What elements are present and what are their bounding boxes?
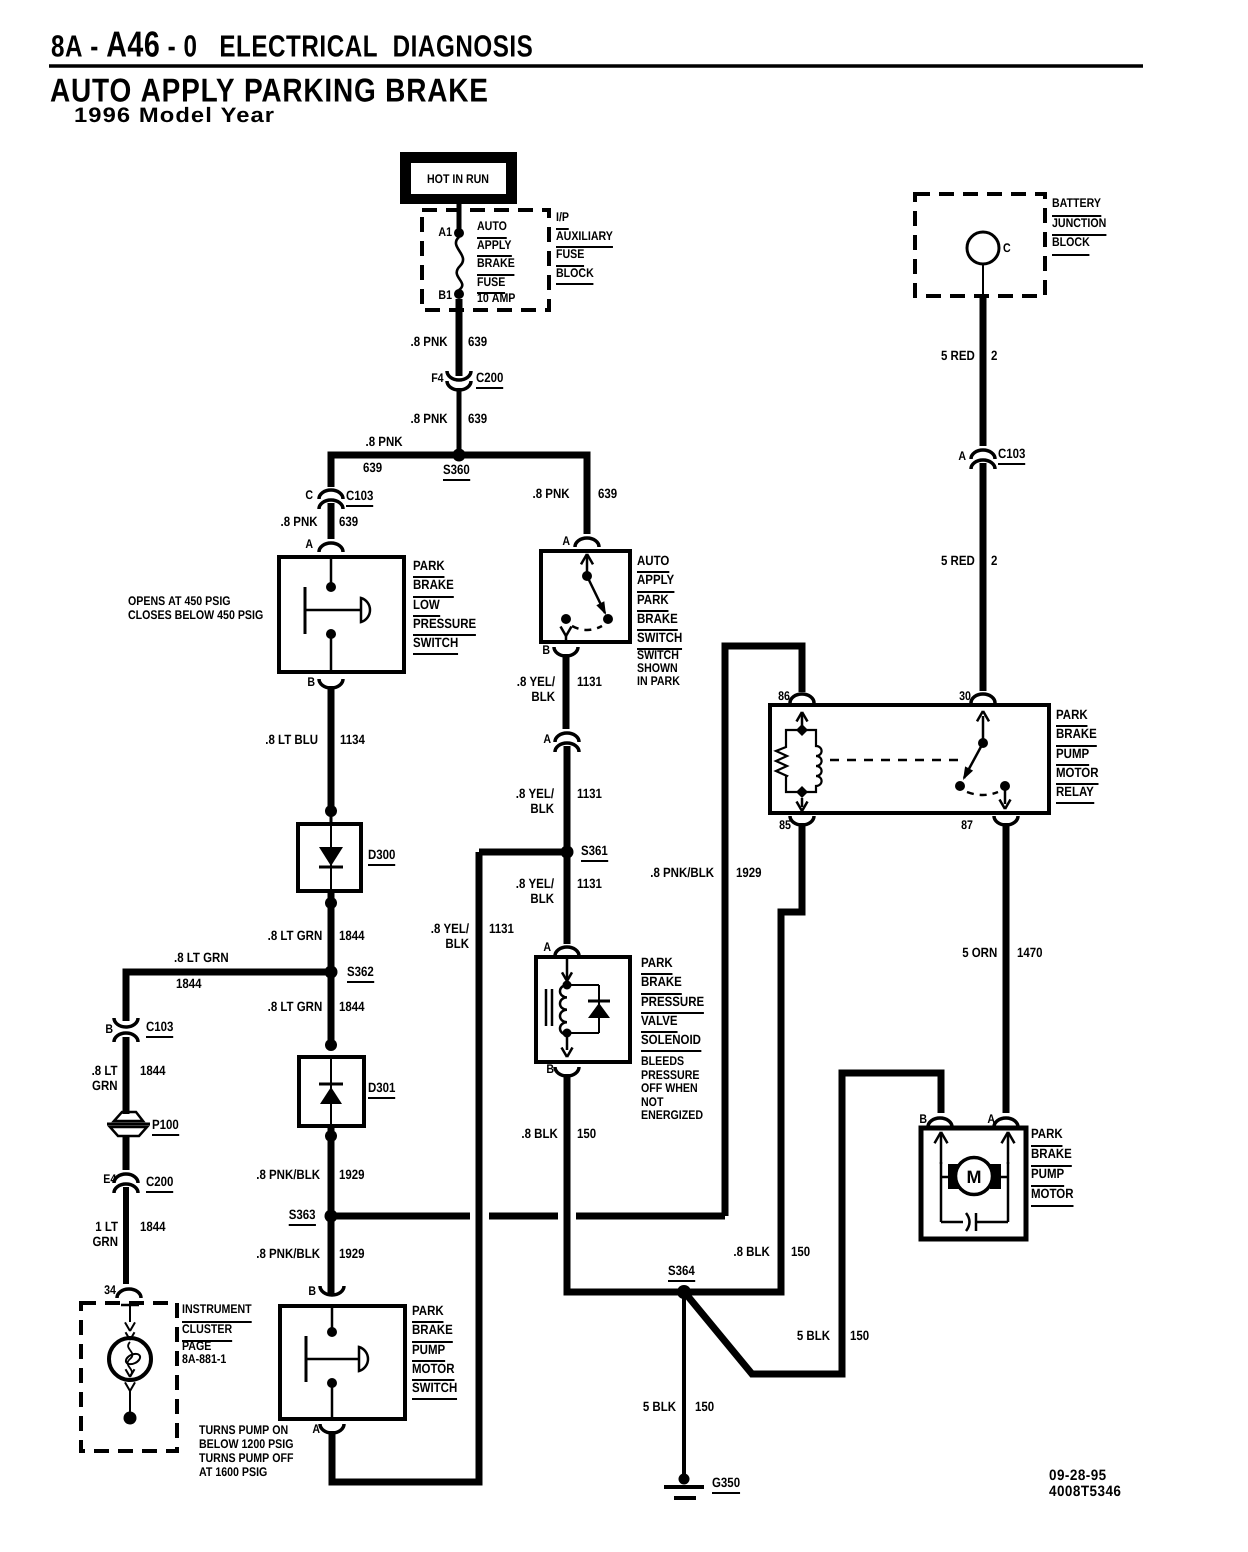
splice name S360: [443, 463, 470, 481]
fuse pin A1 terminal: [454, 228, 464, 238]
connector name C103: [146, 1020, 173, 1038]
wire label .8 LT GRN: [267, 929, 322, 944]
wire .8 LT GRN 1844 S362 to D301: [328, 972, 335, 1041]
wire label 5 ORN: [962, 946, 997, 961]
wire 5 RED 2 battery to C103: [980, 296, 987, 446]
note BELOW 1200 PSIG: [199, 1438, 293, 1452]
park brake pump motor box: [921, 1128, 1026, 1239]
wire 5 RED 2 C103 to relay 30: [980, 463, 987, 691]
pin label 34: [104, 1284, 116, 1298]
component label PARK BRAKE LOW PRESSURE SWITCH: [413, 556, 476, 652]
pin label A1: [438, 226, 452, 240]
note SWITCH SHOWN IN PARK: [637, 649, 680, 687]
wire P100 to C200: [123, 1136, 130, 1170]
pin label B: [308, 1285, 316, 1299]
wire .8 PNK/BLK 1929 S363 to relay segment 2: [489, 1213, 558, 1220]
wire label .8 LT BLU: [265, 733, 318, 748]
wire circuit 1844: [176, 977, 202, 992]
pin A terminal of auto apply switch: [575, 538, 599, 547]
auto switch pivot contact: [582, 571, 592, 581]
connector C103 halves (pin C): [319, 490, 343, 499]
wire from HOT IN RUN to fuse pin A1: [457, 204, 462, 230]
wire label .8 LT GRN: [92, 1064, 118, 1093]
solenoid pin A arrow: [566, 959, 569, 980]
connector name C200: [476, 371, 503, 389]
I/P auxiliary fuse block (dashed outline): [422, 210, 549, 310]
wire label 5 RED: [941, 554, 975, 569]
wire circuit 1844: [140, 1064, 166, 1079]
pin B terminal of pressure switch: [319, 679, 343, 688]
pin label B: [919, 1113, 927, 1127]
pin label 85: [779, 819, 791, 833]
pin A terminal of pump motor switch: [320, 1424, 344, 1433]
wire S362 branch to instrument cluster: [126, 972, 331, 1021]
park brake pressure valve solenoid box: [536, 957, 630, 1062]
note AT 1600 PSIG: [199, 1466, 267, 1480]
cluster lamp terminal: [124, 1412, 137, 1425]
wire .8 PNK 639 C103 to switch pin A: [328, 503, 335, 539]
relay coil resistor branch: [776, 730, 802, 792]
pin A terminal of solenoid: [555, 947, 579, 956]
pin label A: [543, 733, 551, 747]
pin label A: [312, 1423, 320, 1437]
pin B terminal of solenoid: [555, 1067, 579, 1076]
pin label B: [542, 644, 550, 658]
pin label 87: [961, 819, 973, 833]
wire S360 left branch to pressure switch column: [331, 455, 459, 487]
solenoid coil: [560, 985, 567, 1035]
diode D301 box: [299, 1057, 364, 1126]
wire label 5 BLK (motor): [797, 1329, 830, 1344]
auto apply brake fuse element: [456, 237, 463, 290]
component label BATTERY JUNCTION BLOCK: [1052, 194, 1106, 253]
subtitle 1996 Model Year: [74, 103, 275, 128]
wire circuit 150 (85 wire): [791, 1245, 810, 1260]
diode name D301: [368, 1081, 395, 1099]
pin label C: [305, 489, 313, 503]
connector C200 halves (pin E4): [114, 1174, 138, 1183]
wire circuit 1131 (riser): [489, 922, 514, 937]
wire .8 PNK 639 fuse to C200: [456, 299, 463, 376]
relay coil winding branch: [802, 730, 822, 792]
cluster lead arrow: [125, 1322, 130, 1331]
wire S360 right branch to auto apply switch: [459, 455, 587, 534]
ground G350: [679, 1474, 690, 1485]
component label PARK BRAKE PUMP MOTOR: [1031, 1124, 1074, 1204]
wire 1 LT GRN 1844 C200 to cluster: [123, 1187, 129, 1284]
wire label .8 PNK: [411, 335, 448, 350]
wire label .8 PNK/BLK (86 wire): [650, 866, 714, 881]
connector C103 halves (pin A): [971, 450, 995, 459]
pin A terminal of pump motor: [994, 1118, 1018, 1127]
wire label 1 LT GRN: [93, 1220, 119, 1249]
wire .8 BLK 150 solenoid to S364: [567, 1074, 684, 1292]
pump motor pin B arrow: [940, 1134, 943, 1164]
pin label B1: [438, 289, 452, 303]
pump motor suppression capacitor: [941, 1221, 963, 1224]
node above diode D300: [325, 805, 337, 817]
auto switch contact right: [603, 614, 613, 624]
pressure switch plunger: [304, 587, 307, 634]
wire .8 BLK 150 relay 85 to S364: [686, 823, 802, 1292]
relay switch dashed throw arc: [967, 792, 998, 795]
pressure switch contact A: [326, 582, 336, 592]
wire circuit 1470: [1017, 946, 1043, 961]
header rule line: [49, 64, 1143, 68]
pump switch pin B lead: [331, 1308, 334, 1328]
splice S364: [677, 1285, 691, 1299]
cluster lamp lower lead: [129, 1391, 131, 1412]
wire label .8 PNK: [281, 515, 318, 530]
pin 85 terminal of relay: [790, 816, 814, 825]
HOT IN RUN feed box: [400, 152, 517, 204]
relay pin 30 arrow: [982, 716, 985, 740]
wire circuit 1929 (86 wire): [736, 866, 762, 881]
pressure switch contact B: [326, 629, 336, 639]
pin label E4: [103, 1173, 116, 1187]
pump motor brush right: [990, 1164, 1001, 1189]
brake warning indicator lamp: [109, 1338, 151, 1380]
pressure switch pin B lead: [330, 634, 333, 670]
pin label A: [543, 941, 551, 955]
wire circuit 2: [991, 349, 997, 364]
component label PARK BRAKE PUMP MOTOR RELAY: [1056, 705, 1099, 801]
wire label .8 PNK: [533, 487, 570, 502]
park brake pump motor switch box: [280, 1306, 405, 1419]
wire label .8 LT GRN: [174, 951, 229, 966]
wire circuit 639: [363, 461, 382, 476]
pin label B: [105, 1023, 113, 1037]
relay coil bottom node: [796, 786, 808, 798]
wire label 5 BLK: [643, 1400, 676, 1415]
note TURNS PUMP ON: [199, 1424, 288, 1438]
relay coil pin 85 arrow: [801, 798, 804, 807]
pressure switch pin A lead: [330, 559, 333, 583]
inline connector halves (pin A): [555, 733, 579, 742]
pin label A: [305, 538, 313, 552]
wire label .8 BLK: [522, 1127, 558, 1142]
splice S360: [453, 449, 466, 462]
relay coil pin 86 arrow: [801, 714, 804, 728]
wire 5 BLK 150 pump motor B to S364: [686, 1073, 941, 1374]
pin label F4: [432, 372, 444, 386]
park brake low pressure switch box: [279, 557, 404, 672]
node below diode D300: [325, 897, 337, 909]
pump switch contact B: [327, 1327, 337, 1337]
pump motor brush left: [948, 1164, 959, 1189]
wire circuit 1844: [140, 1220, 166, 1235]
pin label A: [958, 450, 966, 464]
wire label .8 YEL/BLK (riser): [431, 922, 469, 951]
connector name C103: [998, 447, 1025, 465]
component label I/P AUXILIARY FUSE BLOCK: [556, 208, 613, 282]
pin 34 terminal of instrument cluster: [117, 1289, 141, 1298]
wire circuit 1131: [577, 877, 602, 892]
auto switch contact left: [561, 614, 571, 624]
solenoid valve plates: [545, 989, 548, 1026]
splice name S361: [581, 844, 608, 862]
wire circuit 150: [695, 1400, 714, 1415]
wire circuit 1131: [577, 675, 602, 690]
splice name S363: [289, 1208, 316, 1226]
connector name C200: [146, 1175, 173, 1193]
wire .8 PNK/BLK 1929 D301 to S363: [328, 1126, 335, 1295]
pin label 30: [959, 690, 971, 704]
wire 5 BLK 150 S364 to G350: [682, 1292, 686, 1477]
pin label 86: [778, 690, 790, 704]
battery junction stud lead: [982, 264, 984, 296]
note 8A-881-1: [182, 1353, 226, 1367]
wire .8 YEL/BLK 1131 switch B to connector: [563, 654, 570, 729]
wire circuit 639: [598, 487, 617, 502]
relay switch pivot: [978, 738, 988, 748]
pin label B: [307, 676, 315, 690]
note BLEEDS PRESSURE OFF WHEN NOT ENERGIZED: [641, 1055, 703, 1123]
solenoid coil top node: [563, 981, 572, 990]
wire .8 LT BLU 1134: [328, 686, 335, 808]
wire .8 LT GRN 1844 D300 to S362: [328, 891, 335, 969]
title AUTO APPLY PARKING BRAKE: [50, 72, 489, 110]
wire 5 ORN 1470 relay 87 to pump motor: [1003, 823, 1010, 1113]
relay switch contact left: [955, 781, 965, 791]
node below diode D301: [325, 1130, 337, 1142]
wire circuit 1134: [340, 733, 365, 748]
wire S361 branch to pump switch riser: [479, 849, 567, 856]
note OPENS AT 450 PSIG: [128, 595, 231, 609]
wire .8 PNK/BLK 1929 S363 to relay segment 1: [331, 1213, 470, 1220]
wire circuit 1929: [339, 1168, 365, 1183]
label HOT IN RUN: [427, 173, 489, 187]
relay switch blade: [964, 743, 983, 778]
grommet name P100: [152, 1118, 179, 1136]
wire label .8 LT GRN: [267, 1000, 322, 1015]
component label PARK BRAKE PRESSURE VALVE SOLENOID: [641, 953, 704, 1049]
park brake pump motor relay box: [770, 705, 1049, 813]
diode name D300: [368, 848, 395, 866]
wire label .8 PNK/BLK: [256, 1247, 320, 1262]
component label AUTO APPLY PARK BRAKE SWITCH: [637, 551, 682, 647]
wire label .8 PNK: [366, 435, 403, 450]
wire label .8 PNK: [411, 412, 448, 427]
wire label .8 YEL/BLK: [516, 877, 554, 906]
wire circuit 1131: [577, 787, 602, 802]
wire .8 YEL/BLK 1131 connector to S361: [564, 746, 571, 848]
battery junction block (dashed outline): [915, 194, 1045, 296]
auto apply park brake switch box: [541, 551, 630, 642]
wire circuit 639: [468, 412, 487, 427]
wire circuit 639: [468, 335, 487, 350]
diode D300 box: [298, 824, 361, 891]
relay switch contact right: [1000, 781, 1010, 791]
plate date code: [1049, 1468, 1121, 1500]
connector C200 halves (F4): [447, 371, 471, 380]
pin label C: [1003, 242, 1011, 256]
ground name G350: [712, 1476, 740, 1494]
auto switch dashed throw arc: [572, 626, 602, 630]
pin label B: [546, 1063, 554, 1077]
wire label .8 YEL/BLK: [517, 675, 555, 704]
pin B terminal of auto apply switch: [554, 647, 578, 656]
pin 87 terminal of relay: [994, 816, 1018, 825]
relay coil top node: [796, 724, 808, 736]
pump switch contact A: [327, 1378, 337, 1388]
pump motor armature M: [956, 1158, 993, 1195]
pump switch pin A lead: [331, 1383, 334, 1417]
pin B terminal of pump motor: [928, 1118, 952, 1127]
relay pin 87 arrow: [1004, 790, 1007, 804]
wire circuit 1844: [339, 929, 365, 944]
pump motor pin A arrow: [1007, 1134, 1010, 1164]
note TURNS PUMP OFF: [199, 1452, 293, 1466]
pump switch plunger: [305, 1336, 308, 1382]
splice S363: [325, 1210, 338, 1223]
component label PARK BRAKE PUMP MOTOR SWITCH: [412, 1301, 457, 1397]
wire label 5 RED: [941, 349, 975, 364]
grommet P100: [114, 1112, 143, 1121]
wire circuit 2: [991, 554, 997, 569]
solenoid suppression diode: [567, 984, 599, 986]
relay actuation dashed link: [830, 759, 958, 761]
pin A terminal of pressure switch: [319, 543, 343, 552]
connector C103 halves (pin B): [114, 1018, 138, 1027]
pin label A: [987, 1113, 995, 1127]
wire label .8 PNK/BLK: [256, 1168, 320, 1183]
fuse pin B1 terminal: [454, 289, 464, 299]
wire pump switch A to yel/blk riser: [332, 852, 479, 1482]
wire circuit 150 (motor): [850, 1329, 869, 1344]
diode D301: [330, 1059, 332, 1124]
battery junction stud C: [967, 232, 999, 264]
splice S361: [561, 846, 574, 859]
diode D300: [330, 826, 332, 889]
note PAGE: [182, 1340, 211, 1354]
pump motor internal leads: [940, 1162, 943, 1222]
splice S362: [325, 966, 338, 979]
wire circuit 639: [339, 515, 358, 530]
cluster pin 34 lead: [121, 1304, 139, 1307]
note CLOSES BELOW 450 PSIG: [128, 609, 263, 623]
solenoid coil bottom node: [563, 1029, 572, 1038]
pin 86 terminal of relay: [790, 694, 814, 703]
wire circuit 150: [577, 1127, 596, 1142]
fuse name AUTO APPLY BRAKE FUSE 10 AMP: [477, 217, 515, 291]
svg-text:M: M: [967, 1167, 982, 1187]
splice name S362: [347, 965, 374, 983]
pin B terminal of pump motor switch: [320, 1286, 344, 1295]
wire label .8 YEL/BLK: [516, 787, 554, 816]
auto switch blade: [587, 576, 605, 613]
instrument cluster box (dashed outline): [81, 1303, 177, 1451]
component label INSTRUMENT CLUSTER: [182, 1300, 252, 1339]
cluster lamp lower arrow: [125, 1382, 130, 1391]
wire label .8 BLK (85 wire): [734, 1245, 770, 1260]
node above diode D301: [325, 1039, 337, 1051]
wire .8 YEL/BLK 1131 S361 to solenoid: [564, 852, 571, 944]
wire circuit 1844: [339, 1000, 365, 1015]
fuse rating 10 AMP: [477, 292, 515, 306]
auto switch pin A arrow: [586, 556, 589, 573]
pin 30 terminal of relay: [971, 694, 995, 703]
splice name S364: [668, 1264, 695, 1282]
pin label A: [562, 535, 570, 549]
wire .8 PNK/BLK 1929 S363 to relay segment 3: [576, 1213, 725, 1220]
wire .8 LT GRN 1844 C103 to P100: [123, 1037, 130, 1114]
solenoid pin B arrow: [566, 1037, 569, 1050]
connector name C103: [346, 489, 373, 507]
wire circuit 1929: [339, 1247, 365, 1262]
wire .8 PNK 639 C200 to S360: [457, 388, 462, 452]
header: page id ELECTRICAL DIAGNOSIS: [51, 23, 533, 66]
wire into D300: [330, 811, 333, 826]
wire .8 PNK/BLK 1929 relay 86 to S363 run: [725, 646, 802, 1216]
auto switch pin B arrow: [561, 626, 567, 636]
